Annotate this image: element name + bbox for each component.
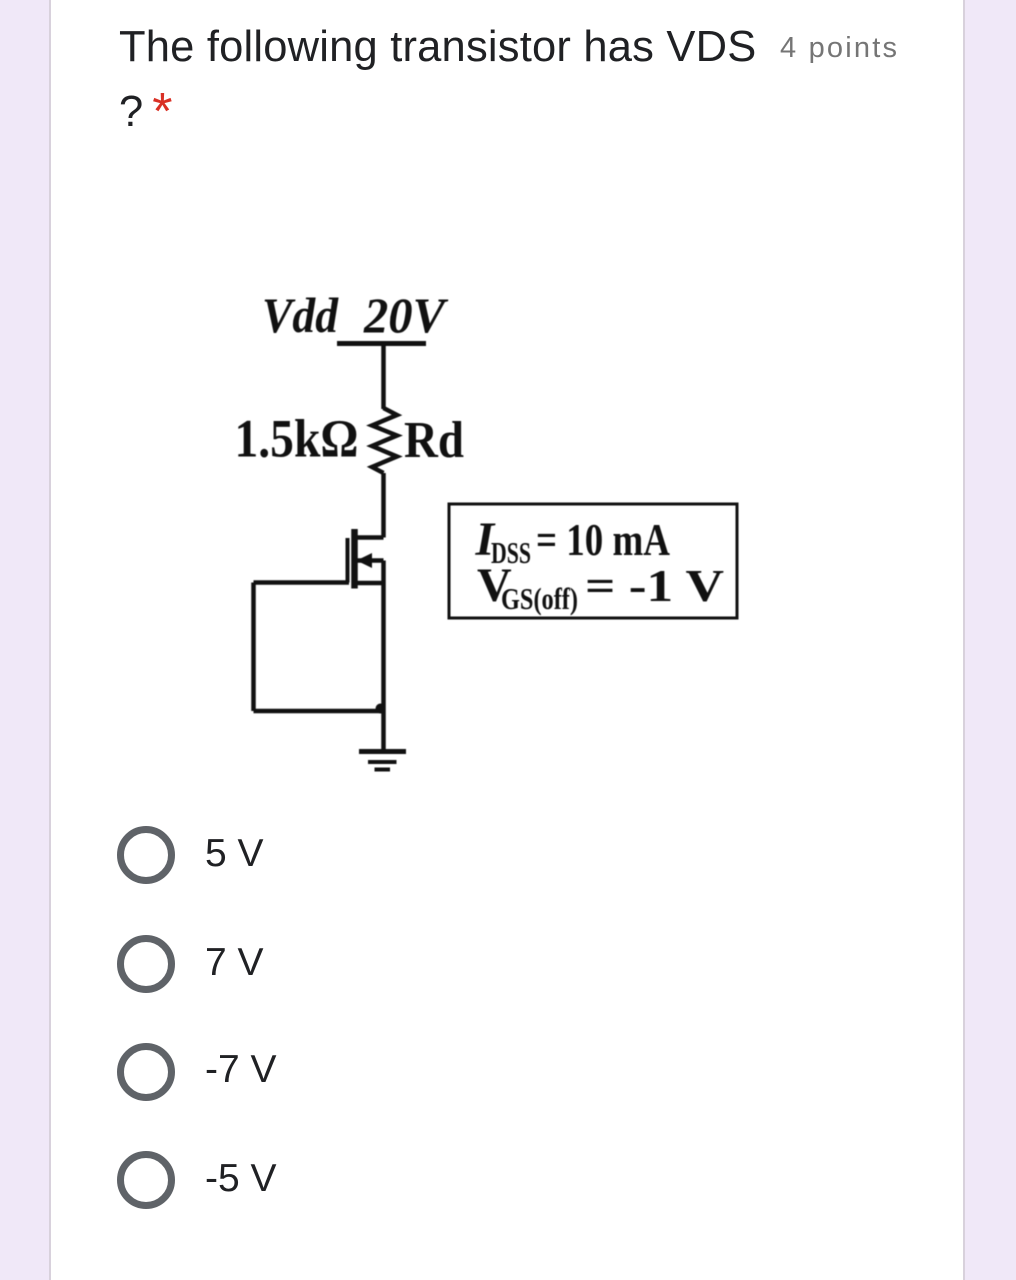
svg-text:Rd: Rd xyxy=(404,412,464,469)
svg-text:GS(off): GS(off) xyxy=(501,581,578,616)
svg-text:= 10 mA: = 10 mA xyxy=(536,515,670,565)
svg-text:20V: 20V xyxy=(363,287,449,343)
svg-text:Vdd: Vdd xyxy=(262,287,339,343)
svg-text:1.5kΩ: 1.5kΩ xyxy=(235,409,359,469)
svg-text:= -1 V: = -1 V xyxy=(585,561,724,611)
